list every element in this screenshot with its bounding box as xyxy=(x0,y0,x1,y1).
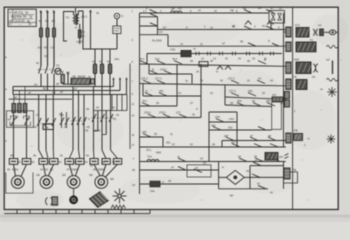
top wire labels xyxy=(145,6,265,29)
svg-text:69Я: 69Я xyxy=(156,151,161,155)
svg-text:78.1: 78.1 xyxy=(142,99,148,103)
D3 linkage dashed xyxy=(71,120,86,122)
svg-text:45: 45 xyxy=(132,168,135,172)
ladder left rail xyxy=(139,13,141,194)
svg-text:261: 261 xyxy=(166,141,171,145)
rung 9a xyxy=(140,105,178,107)
svg-text:42: 42 xyxy=(36,61,39,65)
L1 plug body xyxy=(320,29,324,36)
aux contact pair A4 xyxy=(59,112,69,128)
bridge diamond xyxy=(226,170,244,184)
transformer secondary winding 2 dark xyxy=(78,30,81,38)
svg-text:44: 44 xyxy=(34,125,37,129)
svg-text:Д1.1: Д1.1 xyxy=(81,15,87,19)
heater KK4a xyxy=(90,159,98,165)
D4 contactor slashes xyxy=(92,114,96,122)
diamond center M xyxy=(233,176,237,180)
fuse FU2 xyxy=(46,28,49,37)
contact on rung2 b xyxy=(266,26,274,29)
svg-text:26: 26 xyxy=(156,101,159,105)
svg-text:76: 76 xyxy=(200,79,203,83)
svg-text:57: 57 xyxy=(190,142,193,146)
svg-text:45: 45 xyxy=(210,59,213,63)
control fuse wire a xyxy=(94,49,96,64)
chevron marks xyxy=(285,154,289,159)
lamp label xyxy=(96,11,124,18)
rung 9b xyxy=(225,105,272,107)
wires below fuses xyxy=(41,37,54,66)
supply wire L1 with arrow xyxy=(40,11,42,28)
motor M2 leads xyxy=(43,164,45,175)
contacts rung7 xyxy=(143,80,151,83)
motor M3 leads xyxy=(69,164,72,175)
terminal digits xyxy=(193,48,267,61)
supply wire L2 with arrow xyxy=(47,11,49,28)
svg-text:с2: с2 xyxy=(74,87,77,91)
svg-text:«М»: «М» xyxy=(114,57,120,61)
contact dc mid xyxy=(252,174,260,177)
supply phase labels A B C xyxy=(40,9,56,13)
labels rung16 xyxy=(133,151,274,162)
box output drop xyxy=(270,23,272,30)
transformer primary loop wire xyxy=(64,12,74,42)
vertical 225b xyxy=(224,97,226,105)
L2 heater zigzag xyxy=(327,45,338,48)
rung 17 xyxy=(140,169,219,171)
switch linkage dashed xyxy=(38,69,57,71)
label 43-230 xyxy=(152,39,270,46)
sheet arrows up x3 xyxy=(113,78,115,87)
svg-text:53: 53 xyxy=(86,154,89,158)
D2 aux rect xyxy=(43,124,54,130)
heater KK1b xyxy=(22,159,31,165)
contacts rung15 xyxy=(232,144,240,147)
D1 contact bracket b xyxy=(24,116,30,119)
svg-text:8л: 8л xyxy=(29,22,32,26)
vertical 206 xyxy=(208,112,210,162)
svg-text:48: 48 xyxy=(240,40,243,44)
contacts rung8b xyxy=(231,93,239,96)
contacts rung14 xyxy=(226,137,234,140)
L4 label xyxy=(292,75,297,79)
feeds from bus xyxy=(13,95,15,100)
transformer secondary wire up xyxy=(78,11,84,49)
wheel spindle xyxy=(73,188,75,195)
bus labels xyxy=(34,83,56,95)
svg-text:281: 281 xyxy=(159,89,164,93)
D1 contact bracket a xyxy=(11,116,17,119)
L4 relay coil KM2 xyxy=(286,79,291,90)
contact rung17 xyxy=(178,167,186,170)
svg-text:81: 81 xyxy=(39,19,43,23)
labels rung9b xyxy=(237,99,271,103)
svg-text:щ: щ xyxy=(27,19,30,23)
L3 bar xyxy=(332,61,334,75)
coupling symbol xyxy=(46,198,48,205)
supply wire L3 with arrow xyxy=(53,11,55,28)
bus left stubs to border xyxy=(12,87,14,95)
svg-text:267: 267 xyxy=(279,155,284,159)
inductor winding on rung1 xyxy=(171,11,182,13)
L4 hatched block xyxy=(296,80,307,90)
heater KK3b xyxy=(76,159,85,165)
rung 14 xyxy=(222,140,286,142)
transformer labels xyxy=(66,15,88,44)
svg-text:47: 47 xyxy=(222,42,226,46)
valve symbol a xyxy=(271,13,275,20)
vertical 239 xyxy=(236,112,238,147)
svg-text:512: 512 xyxy=(155,57,160,61)
svg-text:↑243: ↑243 xyxy=(214,115,220,119)
svg-text:ПВ: ПВ xyxy=(230,9,234,13)
brake winding bumps xyxy=(147,160,159,162)
wires below control fuses xyxy=(94,74,96,87)
svg-text:48: 48 xyxy=(268,134,271,138)
ammeter circle PA xyxy=(54,70,62,72)
svg-text:50|51: 50|51 xyxy=(12,168,19,172)
rung 3b feeder xyxy=(168,45,286,47)
svg-text:42: 42 xyxy=(112,106,115,110)
svg-text:ТА: ТА xyxy=(56,64,60,68)
motor M1 xyxy=(11,176,24,189)
L1 lead xyxy=(324,31,329,33)
svg-text:51: 51 xyxy=(60,154,63,158)
coolant zigzag xyxy=(111,205,125,208)
lamp EL circle xyxy=(114,13,119,18)
fuse FU4 xyxy=(61,75,64,84)
motor M1 enclosure bracket xyxy=(6,173,33,194)
svg-text:27: 27 xyxy=(190,101,193,105)
control jog bus xyxy=(85,48,118,50)
svg-text:тр: тр xyxy=(88,75,91,79)
contacts rung16 xyxy=(178,158,186,161)
svg-text:47: 47 xyxy=(171,166,174,170)
right rail lower xyxy=(283,162,285,189)
rung 18 xyxy=(140,183,219,185)
control fuse wire c xyxy=(109,49,111,64)
svg-text:267: 267 xyxy=(231,141,236,145)
contact KV1.1 xyxy=(244,10,252,13)
svg-text:Н: Н xyxy=(262,159,264,163)
motor M4 xyxy=(95,176,108,189)
sparks star xyxy=(113,189,127,204)
L2 relay coil KV2 xyxy=(286,42,291,52)
svg-text:ВУ: ВУ xyxy=(230,194,234,198)
label rung12 xyxy=(211,124,216,128)
small box right of resistor xyxy=(91,79,95,84)
D1 wire b xyxy=(26,113,28,159)
svg-text:45: 45 xyxy=(14,96,17,100)
motor labels xyxy=(7,168,105,172)
svg-text:а2: а2 xyxy=(28,91,31,95)
vertical 163 xyxy=(162,137,164,147)
control fuse FU6 xyxy=(100,64,103,74)
labels rung8b xyxy=(229,89,253,93)
rung 11 xyxy=(209,121,237,123)
svg-text:В2: В2 xyxy=(43,87,47,91)
svg-text:262: 262 xyxy=(228,125,233,129)
heater KK2a xyxy=(39,159,48,165)
arrow up mid-left xyxy=(67,73,69,85)
L5 spark star xyxy=(327,135,336,144)
svg-text:76: 76 xyxy=(185,79,188,83)
L3 connector halves xyxy=(313,64,315,72)
L6 relay coil YB xyxy=(284,168,290,179)
svg-text:23: 23 xyxy=(178,91,181,95)
vertical 222 xyxy=(221,141,223,148)
legend inner rule xyxy=(13,14,34,16)
labels rung5 xyxy=(139,57,213,63)
knife switch QS1 pole 2 xyxy=(45,66,47,74)
label rung17 xyxy=(171,166,174,170)
svg-text:45: 45 xyxy=(254,155,257,159)
D4 labels xyxy=(85,117,116,133)
terminal row xyxy=(147,53,282,55)
contact inside box xyxy=(194,169,202,172)
rung 13 xyxy=(139,136,163,138)
transformer core xyxy=(75,14,77,26)
chevron linkage 2 xyxy=(267,21,273,25)
button rung B xyxy=(140,25,158,27)
contacts rung5 xyxy=(140,61,148,64)
svg-text:У32: У32 xyxy=(170,48,176,52)
contacts rung10 xyxy=(148,114,156,117)
svg-text:Л: Л xyxy=(268,39,270,43)
svg-text:КУ1: КУ1 xyxy=(295,23,300,27)
svg-text:ш2: ш2 xyxy=(326,58,330,62)
bridge enclosure bottom xyxy=(219,188,268,190)
rectifier block box xyxy=(269,11,285,24)
terminal paired ticks xyxy=(196,52,274,56)
motor M2 xyxy=(40,176,53,189)
dc branch mid xyxy=(250,176,284,178)
label 220V xyxy=(159,30,176,52)
contacts rung8a xyxy=(145,93,153,96)
svg-text:Л: Л xyxy=(196,107,198,111)
vertical 225 xyxy=(224,85,226,97)
L5 relay coil KT xyxy=(286,133,291,143)
L1 hatched block xyxy=(296,28,309,38)
svg-text:ЛЛ: ЛЛ xyxy=(178,7,182,11)
contacts rung6 xyxy=(150,71,158,74)
svg-text:ВК1М: ВК1М xyxy=(78,75,86,79)
rail wire number labels xyxy=(132,10,135,147)
main bus line 2 xyxy=(13,90,120,92)
resistor R hatched box xyxy=(71,78,90,84)
L2 wide hatched block xyxy=(296,42,316,52)
vertical 177 xyxy=(176,64,178,106)
rung 5 xyxy=(140,64,286,66)
svg-text:Н: Н xyxy=(216,70,218,74)
svg-text:278.7: 278.7 xyxy=(160,68,167,72)
motor M4 leads xyxy=(94,164,100,175)
chuck control box xyxy=(7,111,34,128)
diamond right lead xyxy=(244,176,250,178)
svg-text:47: 47 xyxy=(214,9,217,13)
svg-text:262: 262 xyxy=(211,124,216,128)
chevrons under rung5 xyxy=(217,66,223,70)
label rung9a xyxy=(142,99,148,103)
D4 extra wires xyxy=(97,111,99,132)
legend table box top-left xyxy=(8,9,36,26)
svg-text:41: 41 xyxy=(96,11,100,15)
svg-text:А2: А2 xyxy=(34,83,38,87)
abrasive block parallelogram xyxy=(90,192,109,208)
button column vertical xyxy=(157,17,159,35)
svg-text:47: 47 xyxy=(250,134,253,138)
D4 bottom jogs xyxy=(94,150,118,159)
svg-text:278.2: 278.2 xyxy=(144,111,151,115)
brake magnet box xyxy=(272,102,282,129)
rung 7 xyxy=(140,84,286,86)
svg-text:42: 42 xyxy=(254,159,257,163)
D4 linkage dashed xyxy=(92,117,114,119)
svg-text:Д: Д xyxy=(264,58,266,62)
L3 hatched block xyxy=(296,62,311,74)
D1 lower link xyxy=(10,122,31,126)
rung 6 xyxy=(149,73,192,75)
contact rung3b xyxy=(248,43,256,46)
svg-text:277: 277 xyxy=(176,111,181,115)
svg-text:47: 47 xyxy=(36,113,39,117)
svg-text:Р1: Р1 xyxy=(310,38,314,42)
neutral bus line xyxy=(9,98,72,100)
svg-text:···: ··· xyxy=(19,23,23,27)
section divider line xyxy=(292,7,294,209)
contact rung13 xyxy=(143,134,151,137)
chuck winding 1 xyxy=(12,104,16,113)
valve symbol b xyxy=(278,13,282,20)
svg-text:31: 31 xyxy=(192,113,195,117)
sub box top link xyxy=(209,111,237,113)
svg-text:16: 16 xyxy=(196,70,199,74)
svg-text:29: 29 xyxy=(280,101,283,105)
D2 contactor slashes xyxy=(37,118,41,126)
wire number labels xyxy=(39,19,56,23)
relay box xyxy=(187,165,211,177)
contact SQ on rung1 xyxy=(150,10,158,13)
svg-text:в2: в2 xyxy=(60,90,63,94)
title strip xyxy=(4,210,150,214)
svg-text:НБ: НБ xyxy=(72,75,76,79)
heater KK4b xyxy=(102,159,110,165)
label rung18 xyxy=(132,168,164,187)
svg-text:42: 42 xyxy=(203,161,206,165)
wire from fuse to resistor xyxy=(62,83,64,84)
svg-text:<78: <78 xyxy=(292,75,297,79)
label above resistor xyxy=(72,75,91,79)
motor M3 xyxy=(67,176,80,189)
svg-text:46: 46 xyxy=(247,59,250,63)
L5 hatched tag xyxy=(294,134,303,141)
L1 relay coil KV1 xyxy=(286,27,291,37)
L4 heater zigzag xyxy=(327,78,338,81)
control fuse FU5 xyxy=(93,64,96,74)
scan noise flecks xyxy=(20,39,23,41)
feeder wire right xyxy=(129,64,131,150)
rung 2 xyxy=(158,29,286,31)
bridge enclosure left side xyxy=(218,162,220,189)
L3 relay coil KM1 xyxy=(286,62,291,74)
lamp ballast box xyxy=(113,26,121,34)
contact on rung2 a xyxy=(244,26,252,29)
svg-text:35: 35 xyxy=(212,142,215,146)
svg-text:287: 287 xyxy=(224,134,229,138)
svg-text:78.2: 78.2 xyxy=(139,57,145,61)
button rung C xyxy=(140,34,169,36)
aux coil a xyxy=(285,92,290,99)
rung 8b xyxy=(225,97,286,99)
labels rung15 xyxy=(172,141,236,147)
chevron linkage 1 xyxy=(245,21,251,25)
D3 label xyxy=(87,125,91,129)
label A3 xyxy=(56,64,70,75)
labels rung8a xyxy=(145,89,164,93)
rung 1 xyxy=(140,12,270,14)
svg-text:22: 22 xyxy=(210,91,213,95)
grinding wheel dark circle xyxy=(69,195,78,204)
heater KK2b xyxy=(49,159,58,165)
D3 contactor slashes xyxy=(72,117,76,125)
svg-text:64: 64 xyxy=(107,60,111,64)
button rung A xyxy=(140,16,158,18)
svg-text:55|56: 55|56 xyxy=(98,168,105,172)
svg-text:19: 19 xyxy=(200,157,203,161)
svg-text:м: м xyxy=(222,166,224,169)
D2 wires from switch xyxy=(38,95,40,151)
chuck winding 2 xyxy=(18,104,22,113)
svg-text:42: 42 xyxy=(92,60,96,64)
svg-text:44: 44 xyxy=(99,60,103,64)
contact on bottom line xyxy=(258,185,266,188)
rung 16 xyxy=(140,161,286,163)
vertical 201 xyxy=(200,64,202,118)
transformer secondary winding 1 xyxy=(77,15,78,24)
svg-text:Р2: Р2 xyxy=(312,75,316,79)
contact dc up xyxy=(253,162,261,165)
svg-text:43: 43 xyxy=(195,166,198,170)
L1 socket oval xyxy=(329,30,335,35)
D1 contact slashes xyxy=(12,118,16,126)
svg-text:эл: эл xyxy=(320,88,323,91)
heater labels xyxy=(18,160,116,164)
heater KK3a xyxy=(65,159,74,165)
L1 coil stub xyxy=(284,31,286,33)
L6 loop wire xyxy=(284,172,298,183)
svg-text:71А: 71А xyxy=(147,155,152,159)
contacts rung9b xyxy=(237,103,245,106)
border tick labels xyxy=(5,56,7,143)
fuse FU1 xyxy=(40,28,43,37)
labels rung6 xyxy=(152,68,167,72)
contact KV2.1 xyxy=(266,10,274,13)
svg-text:ЛЛ: ЛЛ xyxy=(171,7,175,11)
jog vertical to feeder xyxy=(167,35,169,47)
svg-text:КВ: КВ xyxy=(258,6,262,10)
svg-text:5(+230): 5(+230) xyxy=(152,39,162,43)
small rect on rung5 xyxy=(199,62,208,67)
vertical 143 xyxy=(142,84,144,97)
control fuse wire b xyxy=(101,49,103,64)
knife switch QS1 pole 3 xyxy=(52,66,54,74)
transformer primary winding xyxy=(74,15,75,24)
chuck winding 3 xyxy=(23,104,27,113)
secondary 2 lead xyxy=(79,38,81,44)
label 42 xyxy=(254,159,264,163)
contact rung9a xyxy=(142,103,150,106)
contact rung11 xyxy=(216,119,224,122)
control fuse FU7 xyxy=(108,64,111,74)
